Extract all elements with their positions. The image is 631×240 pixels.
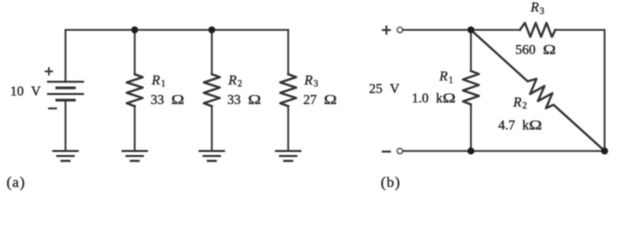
svg-text:10 V: 10 V — [10, 83, 41, 98]
svg-text:4.7 kΩ: 4.7 kΩ — [498, 117, 542, 133]
svg-text:R: R — [438, 69, 448, 84]
svg-text:R: R — [151, 72, 161, 87]
svg-text:25 V: 25 V — [369, 81, 400, 96]
svg-text:(b): (b) — [381, 175, 401, 191]
svg-text:(a): (a) — [7, 175, 26, 191]
svg-text:3: 3 — [314, 79, 319, 89]
svg-text:27 Ω: 27 Ω — [303, 92, 337, 108]
svg-text:1: 1 — [161, 79, 166, 89]
svg-text:R: R — [530, 0, 540, 15]
svg-text:560 Ω: 560 Ω — [515, 42, 555, 58]
svg-text:2: 2 — [522, 101, 527, 111]
svg-text:33 Ω: 33 Ω — [151, 92, 185, 108]
svg-text:R: R — [512, 94, 522, 109]
svg-text:R: R — [227, 72, 237, 87]
svg-text:R: R — [303, 72, 313, 87]
svg-text:3: 3 — [540, 6, 545, 16]
svg-text:33 Ω: 33 Ω — [227, 92, 261, 108]
svg-text:1: 1 — [449, 75, 454, 85]
svg-text:2: 2 — [238, 79, 243, 89]
svg-text:1.0 kΩ: 1.0 kΩ — [412, 90, 456, 106]
